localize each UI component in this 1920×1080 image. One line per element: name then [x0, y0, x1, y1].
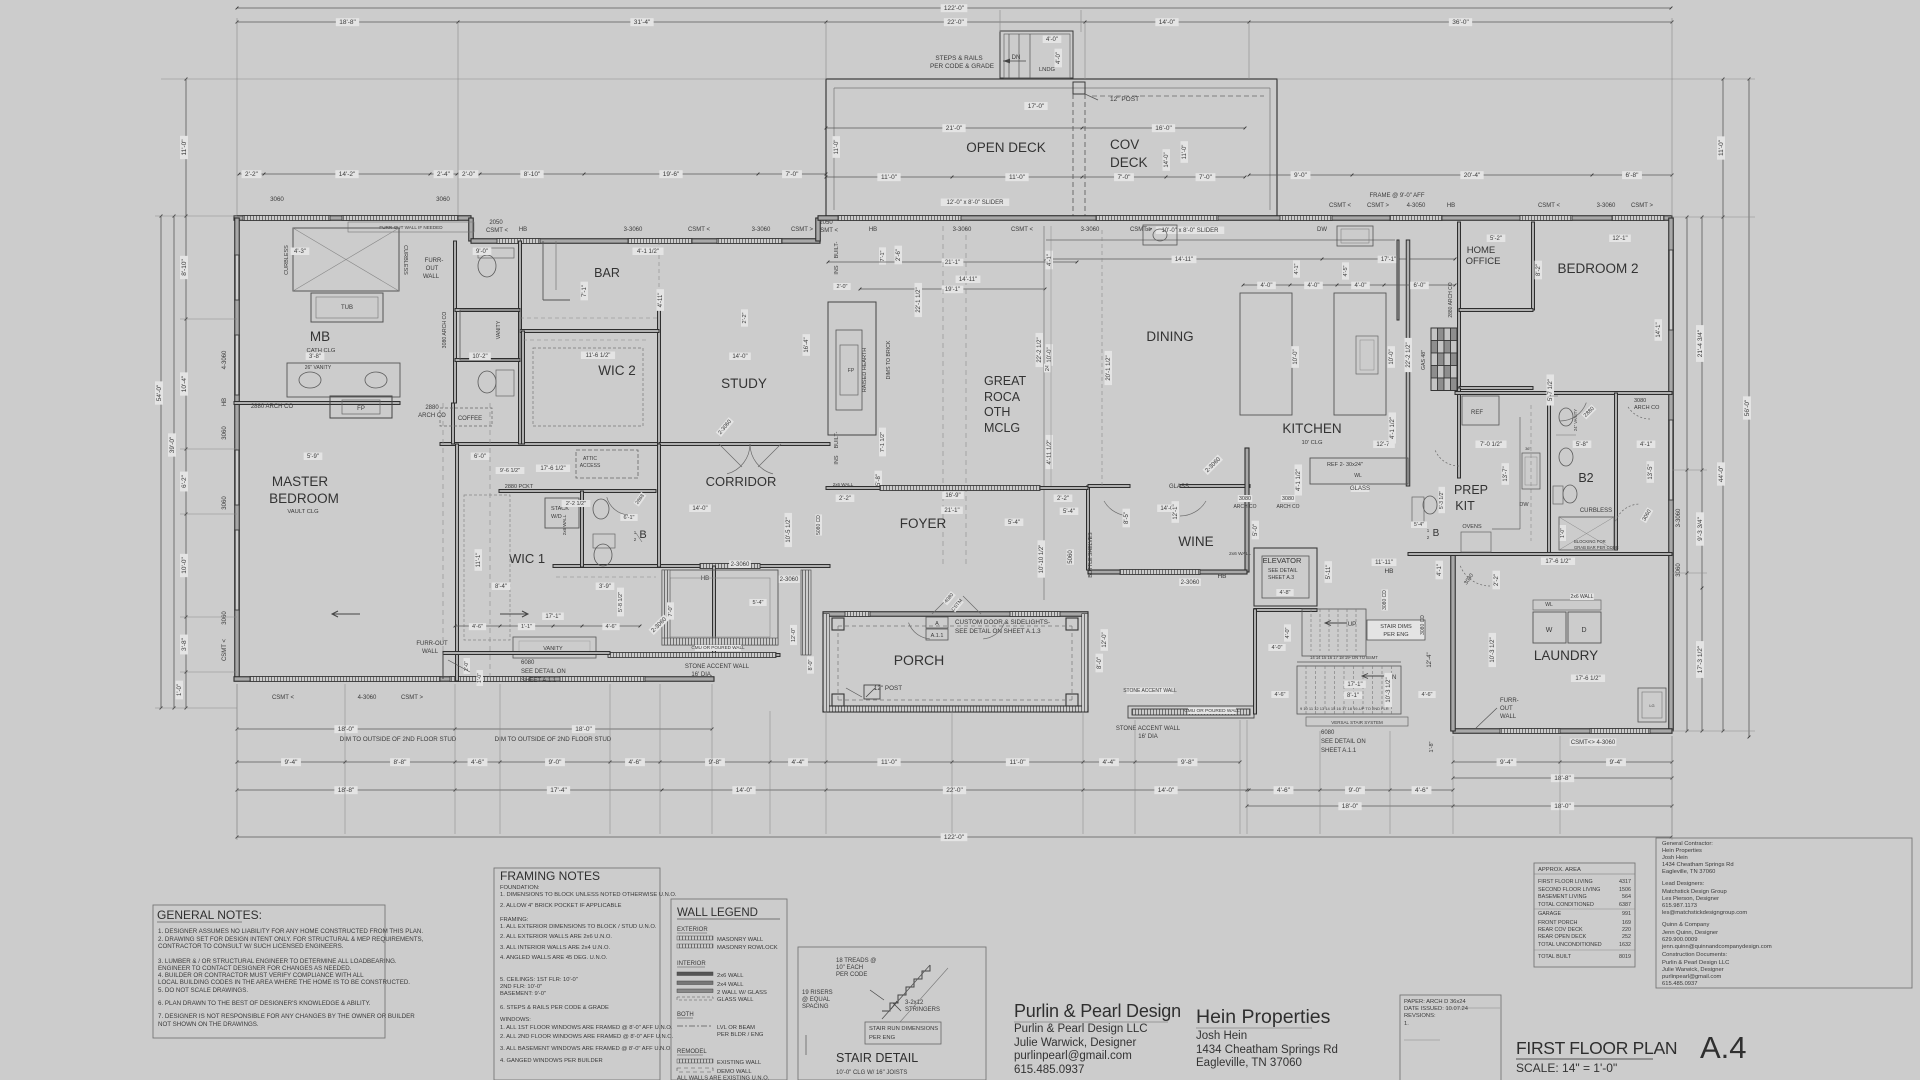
svg-text:4'-8": 4'-8" [1280, 590, 1291, 596]
svg-text:1. DESIGNER ASSUMES NO LIABILI: 1. DESIGNER ASSUMES NO LIABILITY FOR ANY… [158, 928, 423, 935]
svg-text:31'-4": 31'-4" [634, 19, 651, 26]
svg-text:4. ANGLED WALLS ARE 45 DEG. U.: 4. ANGLED WALLS ARE 45 DEG. U.N.O. [500, 955, 608, 961]
svg-text:DN: DN [1012, 55, 1021, 61]
svg-text:DINING: DINING [1146, 329, 1193, 344]
svg-text:2'-2": 2'-2" [742, 312, 748, 323]
svg-text:MCLG: MCLG [984, 421, 1020, 435]
svg-text:1'-0": 1'-0" [477, 673, 483, 683]
svg-text:3080 CD: 3080 CD [1420, 615, 1426, 635]
svg-text:5'-3 1/2": 5'-3 1/2" [1439, 491, 1445, 510]
svg-text:122'-0": 122'-0" [944, 834, 965, 841]
svg-text:4'-1 1/2": 4'-1 1/2" [1390, 417, 1396, 439]
svg-text:ARCH CO: ARCH CO [1233, 504, 1256, 510]
svg-text:1. ALL 1ST FLOOR WINDOWS ARE F: 1. ALL 1ST FLOOR WINDOWS ARE FRAMED @ 8'… [500, 1025, 673, 1031]
svg-text:10'-0" CLG W/ 16" JOISTS: 10'-0" CLG W/ 16" JOISTS [836, 1070, 907, 1076]
svg-text:4. GANGED WINDOWS PER BUILDER: 4. GANGED WINDOWS PER BUILDER [500, 1058, 603, 1064]
svg-text:HB: HB [222, 398, 228, 406]
svg-text:5'-4": 5'-4" [1008, 520, 1020, 526]
svg-text:BASEMENT: 9'-0": BASEMENT: 9'-0" [500, 991, 546, 997]
svg-text:4'-1": 4'-1" [1640, 442, 1652, 448]
svg-text:SEE DETAIL ON: SEE DETAIL ON [1321, 739, 1366, 745]
svg-text:CMU OR POURED WALL: CMU OR POURED WALL [1184, 708, 1240, 714]
svg-text:9'-0": 9'-0" [1294, 172, 1308, 179]
svg-text:VAULT CLG: VAULT CLG [287, 509, 319, 515]
svg-text:FURR-: FURR- [1500, 698, 1519, 704]
svg-text:36": 36" [1146, 227, 1153, 232]
svg-text:10'-10 1/2": 10'-10 1/2" [1039, 545, 1045, 574]
svg-text:5'-8": 5'-8" [1576, 442, 1588, 448]
svg-text:PAPER: ARCH D 36x24: PAPER: ARCH D 36x24 [1404, 999, 1467, 1005]
svg-text:1'-8": 1'-8" [1429, 741, 1435, 752]
svg-text:B2: B2 [1578, 471, 1593, 485]
svg-text:10'-4": 10'-4" [181, 375, 188, 392]
svg-text:5'-4": 5'-4" [1063, 509, 1075, 515]
svg-text:OPEN DECK: OPEN DECK [966, 140, 1046, 155]
svg-text:4. BUILDER OR CONTRACTOR MUST: 4. BUILDER OR CONTRACTOR MUST VERIFY COM… [158, 972, 364, 979]
svg-text:REMODEL: REMODEL [677, 1049, 707, 1055]
svg-text:W: W [1546, 627, 1553, 634]
svg-text:REAR COV DECK: REAR COV DECK [1538, 927, 1583, 933]
svg-text:3-3060: 3-3060 [1676, 508, 1682, 527]
svg-text:A.4: A.4 [1700, 1030, 1747, 1065]
svg-text:PER ENG: PER ENG [869, 1035, 896, 1041]
svg-text:HB: HB [869, 227, 877, 233]
svg-text:2. ALLOW 4" BRICK POCKET IF AP: 2. ALLOW 4" BRICK POCKET IF APPLICABLE [500, 903, 622, 909]
svg-text:SPACING: SPACING [802, 1004, 829, 1010]
svg-text:11'-6 1/2": 11'-6 1/2" [586, 353, 611, 359]
svg-text:SEE DETAIL: SEE DETAIL [1268, 568, 1298, 574]
svg-text:WL: WL [1545, 602, 1553, 608]
svg-text:ROCA: ROCA [984, 390, 1021, 404]
svg-text:6080: 6080 [1321, 730, 1335, 736]
svg-text:8'-10": 8'-10" [181, 259, 188, 276]
svg-text:Les Pierson, Designer: Les Pierson, Designer [1662, 896, 1719, 902]
svg-text:BOTTLE SHELVES: BOTTLE SHELVES [1088, 532, 1094, 578]
svg-text:WINE: WINE [1178, 534, 1213, 549]
svg-text:3-2x12: 3-2x12 [905, 1000, 924, 1006]
svg-text:4'-0": 4'-0" [1308, 283, 1320, 289]
svg-text:GENERAL NOTES:: GENERAL NOTES: [157, 908, 262, 922]
svg-text:9'-0": 9'-0" [1349, 787, 1363, 794]
svg-text:BUILT-: BUILT- [834, 241, 840, 258]
svg-text:3-3060: 3-3060 [752, 227, 771, 233]
svg-text:5060: 5060 [1068, 550, 1074, 564]
svg-text:SEE DETAIL ON SHEET A.1.3: SEE DETAIL ON SHEET A.1.3 [955, 628, 1041, 635]
svg-text:Matchstick Design Group: Matchstick Design Group [1662, 889, 1727, 895]
svg-text:7'-1": 7'-1" [880, 250, 886, 261]
svg-text:3. LUMBER & / OR STRUCTURAL EN: 3. LUMBER & / OR STRUCTURAL ENGINEER TO … [158, 958, 397, 965]
svg-text:Hein Properties: Hein Properties [1196, 1006, 1331, 1028]
svg-text:DEMO WALL: DEMO WALL [717, 1069, 752, 1075]
svg-text:HB: HB [1217, 573, 1226, 580]
svg-text:1. ALL EXTERIOR DIMENSIONS TO: 1. ALL EXTERIOR DIMENSIONS TO BLOCK / ST… [500, 924, 657, 930]
svg-text:3. ALL INTERIOR WALLS ARE 2x4: 3. ALL INTERIOR WALLS ARE 2x4 U.N.O. [500, 945, 610, 951]
svg-text:HB: HB [1384, 568, 1393, 575]
svg-text:INTERIOR: INTERIOR [677, 961, 706, 967]
svg-text:12'-0" x 8'-0" SLIDER: 12'-0" x 8'-0" SLIDER [947, 200, 1005, 206]
svg-text:9'-6 1/2": 9'-6 1/2" [500, 468, 520, 474]
svg-text:9'-4": 9'-4" [1610, 759, 1624, 766]
svg-text:10'-0": 10'-0" [1047, 347, 1053, 362]
svg-text:4'-6": 4'-6" [1277, 787, 1291, 794]
svg-text:16'-9": 16'-9" [945, 493, 960, 499]
svg-text:OUT: OUT [1500, 706, 1513, 712]
svg-text:Purlin & Pearl Design: Purlin & Pearl Design [1014, 1001, 1181, 1021]
svg-text:18'-8": 18'-8" [1554, 775, 1571, 782]
svg-text:2-3060: 2-3060 [780, 577, 799, 583]
svg-text:4-3060: 4-3060 [222, 350, 228, 369]
svg-text:6. STEPS & RAILS PER CODE & GR: 6. STEPS & RAILS PER CODE & GRADE [500, 1005, 609, 1011]
svg-text:17'-0": 17'-0" [1028, 103, 1045, 110]
svg-text:CSMT <: CSMT < [1011, 227, 1034, 233]
svg-text:Lead Designers:: Lead Designers: [1662, 881, 1705, 887]
svg-text:FRAMING NOTES: FRAMING NOTES [500, 869, 600, 883]
svg-text:4'-5": 4'-5" [1343, 265, 1349, 276]
svg-text:BEDROOM 2: BEDROOM 2 [1557, 261, 1638, 276]
svg-text:WALL: WALL [1500, 714, 1517, 720]
svg-text:LOCAL BUILDING CODES IN THE AR: LOCAL BUILDING CODES IN THE AREA WHERE T… [158, 979, 410, 986]
svg-text:Construction Documents:: Construction Documents: [1662, 952, 1727, 958]
svg-text:3060: 3060 [1676, 563, 1682, 577]
svg-text:OVENS: OVENS [1462, 524, 1482, 530]
svg-text:22'-2 1/2": 22'-2 1/2" [1037, 337, 1043, 362]
svg-text:General Contractor:: General Contractor: [1662, 841, 1713, 847]
svg-text:252: 252 [1622, 934, 1631, 940]
svg-text:8'-5": 8'-5" [1124, 512, 1130, 524]
svg-text:ARCH CO: ARCH CO [418, 413, 446, 419]
svg-text:SEE DETAIL ON: SEE DETAIL ON [521, 669, 566, 675]
svg-text:2ND FLR: 10'-0": 2ND FLR: 10'-0" [500, 984, 542, 990]
svg-text:9'-8": 9'-8" [709, 759, 723, 766]
svg-text:7'-0": 7'-0" [1199, 174, 1213, 181]
svg-text:17'-3 1/2": 17'-3 1/2" [1697, 645, 1704, 673]
svg-text:16' DIA: 16' DIA [1138, 734, 1158, 740]
svg-text:3060: 3060 [222, 426, 228, 440]
svg-text:2'-2": 2'-2" [245, 171, 259, 178]
svg-text:56'-0": 56'-0" [1744, 399, 1751, 416]
svg-text:KITCHEN: KITCHEN [1282, 421, 1341, 436]
svg-text:jenn.quinn@quinnandcompanydesi: jenn.quinn@quinnandcompanydesign.com [1661, 944, 1772, 950]
svg-text:2880: 2880 [425, 405, 439, 411]
svg-text:PORCH: PORCH [894, 652, 945, 668]
svg-text:22'-2 1/2": 22'-2 1/2" [1406, 342, 1412, 367]
svg-text:615.987.1173: 615.987.1173 [1662, 903, 1697, 909]
svg-text:3-3060: 3-3060 [953, 227, 972, 233]
svg-text:2'-2": 2'-2" [1494, 574, 1500, 586]
svg-text:BASEMENT LIVING: BASEMENT LIVING [1538, 894, 1587, 900]
svg-text:HB: HB [701, 576, 709, 582]
svg-text:GREAT: GREAT [984, 374, 1026, 388]
svg-text:39'-0": 39'-0" [169, 436, 176, 453]
svg-text:16'-0": 16'-0" [1155, 125, 1172, 132]
svg-text:4'-6": 4'-6" [472, 624, 483, 630]
svg-text:STAIR RUN DIMENSIONS: STAIR RUN DIMENSIONS [869, 1026, 938, 1032]
svg-text:3. ALL BASEMENT WINDOWS ARE FR: 3. ALL BASEMENT WINDOWS ARE FRAMED @ 8'-… [500, 1046, 672, 1052]
svg-text:2'-2": 2'-2" [1057, 496, 1069, 502]
svg-text:CSMT >: CSMT > [1367, 203, 1390, 209]
svg-text:36'-0": 36'-0" [1452, 19, 1469, 26]
svg-text:LAUNDRY: LAUNDRY [1534, 648, 1598, 663]
svg-text:purlinpearl@gmail.com: purlinpearl@gmail.com [1662, 974, 1722, 980]
svg-text:4'-0": 4'-0" [1355, 283, 1367, 289]
svg-text:ALL WALLS ARE EXISTING U.N.O.: ALL WALLS ARE EXISTING U.N.O. [677, 1076, 770, 1080]
svg-text:OFFICE: OFFICE [1466, 256, 1501, 267]
svg-text:1'-0": 1'-0" [177, 684, 183, 696]
svg-text:1'-1": 1'-1" [521, 624, 532, 630]
svg-text:2x6 WALL: 2x6 WALL [1229, 551, 1251, 557]
svg-text:8019: 8019 [1619, 954, 1631, 960]
svg-text:12'-1": 12'-1" [1612, 236, 1627, 242]
svg-text:991: 991 [1622, 911, 1631, 917]
svg-text:629.900.0009: 629.900.0009 [1662, 937, 1697, 943]
svg-text:WIC 1: WIC 1 [509, 551, 545, 566]
svg-text:EXTERIOR: EXTERIOR [677, 927, 708, 933]
svg-text:7. DESIGNER IS NOT RESPONSIBLE: 7. DESIGNER IS NOT RESPONSIBLE FOR ANY C… [158, 1013, 415, 1020]
svg-text:9'-0": 9'-0" [549, 759, 563, 766]
svg-text:17'-1": 17'-1" [545, 614, 560, 620]
svg-text:26" VANITY: 26" VANITY [305, 365, 332, 371]
svg-text:1632: 1632 [1619, 942, 1631, 948]
svg-text:11'-0": 11'-0" [1009, 174, 1026, 181]
svg-text:A.1.1: A.1.1 [931, 633, 944, 639]
svg-text:W/D: W/D [551, 514, 562, 520]
svg-text:3080 ARCH CO: 3080 ARCH CO [442, 312, 448, 349]
svg-text:CSMT <: CSMT < [272, 695, 295, 701]
svg-text:17'-6 1/2": 17'-6 1/2" [540, 466, 565, 472]
svg-text:NOT SHOWN ON THE DRAWINGS.: NOT SHOWN ON THE DRAWINGS. [158, 1021, 259, 1028]
svg-text:8'-8": 8'-8" [394, 759, 408, 766]
svg-text:Julie Warwick, Designer: Julie Warwick, Designer [1662, 967, 1724, 973]
svg-text:10'-3 1/2": 10'-3 1/2" [1490, 637, 1496, 662]
svg-text:19 RISERS: 19 RISERS [802, 990, 833, 996]
svg-text:9'-8": 9'-8" [1181, 759, 1195, 766]
svg-text:21'-4 3/4": 21'-4 3/4" [1697, 329, 1704, 357]
svg-text:WL: WL [1354, 473, 1362, 479]
svg-text:12" POST: 12" POST [1110, 96, 1139, 103]
svg-text:FIRST FLOOR PLAN: FIRST FLOOR PLAN [1516, 1038, 1677, 1058]
svg-text:DW: DW [1519, 502, 1529, 508]
svg-text:COV: COV [1110, 137, 1139, 152]
svg-text:3080: 3080 [1282, 496, 1294, 502]
svg-text:STEPS & RAILS: STEPS & RAILS [935, 55, 982, 62]
svg-text:10'-0" x 8'-0" SLIDER: 10'-0" x 8'-0" SLIDER [1162, 228, 1220, 234]
svg-text:615.485.0937: 615.485.0937 [1014, 1064, 1084, 1076]
svg-text:2'-4": 2'-4" [437, 171, 451, 178]
svg-text:7'-0 1/2": 7'-0 1/2" [1480, 442, 1502, 448]
svg-text:5080 CD: 5080 CD [816, 515, 822, 535]
svg-text:4'-0": 4'-0" [1285, 627, 1291, 638]
svg-text:7'-0": 7'-0" [668, 605, 674, 616]
svg-text:CURBLESS: CURBLESS [284, 245, 290, 275]
svg-text:3060: 3060 [270, 196, 284, 203]
svg-text:FOYER: FOYER [900, 516, 947, 531]
svg-text:REF: REF [1471, 410, 1483, 416]
svg-text:4'-1": 4'-1" [1437, 564, 1443, 576]
svg-text:CSMT >: CSMT > [1631, 203, 1654, 209]
svg-text:5. DO NOT SCALE DRAWINGS.: 5. DO NOT SCALE DRAWINGS. [158, 987, 248, 994]
svg-text:Julie Warwick, Designer: Julie Warwick, Designer [1014, 1037, 1136, 1049]
svg-text:2050: 2050 [489, 220, 503, 226]
svg-text:9'-4": 9'-4" [1500, 759, 1514, 766]
svg-text:6'-8": 6'-8" [1626, 172, 1640, 179]
svg-text:20'-1 1/2": 20'-1 1/2" [1106, 355, 1112, 380]
svg-text:12'-0": 12'-0" [791, 628, 797, 642]
svg-text:20'-4": 20'-4" [1464, 172, 1481, 179]
svg-text:17'-6 1/2": 17'-6 1/2" [1545, 559, 1570, 565]
svg-text:14'-0": 14'-0" [1164, 152, 1170, 167]
svg-text:1. DIMENSIONS TO BLOCK UNLESS: 1. DIMENSIONS TO BLOCK UNLESS NOTED OTHE… [500, 892, 677, 898]
svg-text:18'-0": 18'-0" [1554, 803, 1571, 810]
svg-text:4'-1": 4'-1" [1294, 263, 1300, 274]
svg-text:SHEET A.1.1: SHEET A.1.1 [521, 678, 557, 684]
svg-text:11'-0": 11'-0" [881, 759, 898, 766]
svg-text:3-3060: 3-3060 [624, 227, 643, 233]
svg-text:6'-1": 6'-1" [624, 515, 635, 521]
svg-text:CSMT >: CSMT > [791, 227, 814, 233]
svg-text:9'-4": 9'-4" [285, 759, 299, 766]
svg-text:A: A [935, 621, 939, 627]
svg-text:615.485.0937: 615.485.0937 [1662, 981, 1697, 987]
svg-text:STONE ACCENT WALL: STONE ACCENT WALL [1116, 726, 1181, 732]
svg-text:17'-1": 17'-1" [1347, 682, 1362, 688]
svg-text:STAIR DIMS: STAIR DIMS [1380, 624, 1412, 630]
svg-text:GRAB BAR PER CODE: GRAB BAR PER CODE [1574, 545, 1619, 550]
svg-text:4'-11": 4'-11" [658, 293, 664, 308]
svg-text:14'-0": 14'-0" [1158, 787, 1175, 794]
svg-text:21'-0": 21'-0" [946, 125, 963, 132]
svg-text:12'-0": 12'-0" [1102, 632, 1108, 647]
svg-text:B: B [1433, 528, 1440, 539]
svg-text:22'-0": 22'-0" [946, 787, 963, 794]
svg-text:STUDY: STUDY [721, 376, 767, 391]
svg-text:3080: 3080 [1239, 496, 1251, 502]
svg-text:5'-4": 5'-4" [1414, 522, 1424, 528]
svg-text:4'-11 1/2": 4'-11 1/2" [1047, 440, 1053, 465]
svg-text:REF 2- 30x24": REF 2- 30x24" [1327, 462, 1363, 468]
svg-text:122'-0": 122'-0" [944, 5, 965, 12]
svg-text:MASTER: MASTER [272, 474, 329, 489]
svg-text:Quinn & Company: Quinn & Company [1662, 922, 1709, 928]
svg-text:WALL: WALL [423, 274, 440, 280]
svg-text:6'-2": 6'-2" [181, 474, 188, 488]
svg-text:SCALE: 14" = 1'-0": SCALE: 14" = 1'-0" [1516, 1061, 1617, 1075]
svg-text:14'-11": 14'-11" [959, 277, 977, 283]
svg-text:5'-2": 5'-2" [1490, 236, 1502, 242]
svg-text:7'-0": 7'-0" [1118, 174, 1132, 181]
svg-text:8'-2": 8'-2" [1536, 264, 1542, 276]
svg-text:BUILT-: BUILT- [834, 431, 840, 448]
svg-text:GLASS WALL: GLASS WALL [717, 997, 754, 1003]
svg-text:2880 ARCH CO: 2880 ARCH CO [1448, 282, 1454, 317]
svg-text:11'-1": 11'-1" [476, 553, 482, 568]
svg-text:4'-0": 4'-0" [1261, 283, 1273, 289]
svg-text:CSMT <: CSMT < [688, 227, 711, 233]
svg-text:12'-1": 12'-1" [1173, 504, 1179, 519]
svg-text:3'-9": 3'-9" [599, 584, 611, 590]
svg-text:Purlin & Pearl Design LLC: Purlin & Pearl Design LLC [1014, 1023, 1148, 1035]
svg-text:12" POST: 12" POST [874, 685, 902, 692]
svg-text:7'-1": 7'-1" [582, 285, 588, 297]
svg-text:HB: HB [519, 227, 527, 233]
svg-text:Josh Hein: Josh Hein [1662, 855, 1688, 861]
svg-text:CSMT <: CSMT < [486, 228, 509, 234]
svg-text:ATTIC: ATTIC [583, 456, 597, 462]
svg-text:WIC 2: WIC 2 [598, 363, 636, 378]
svg-text:GLASS: GLASS [1169, 484, 1189, 490]
svg-text:CURBLESS: CURBLESS [402, 245, 408, 275]
svg-text:19'-1": 19'-1" [945, 287, 960, 293]
svg-text:TOTAL BUILT: TOTAL BUILT [1538, 954, 1572, 960]
svg-text:4'-6": 4'-6" [629, 759, 643, 766]
svg-text:9'-0": 9'-0" [476, 249, 488, 255]
svg-text:4'-4": 4'-4" [1103, 759, 1117, 766]
svg-text:16'-4": 16'-4" [804, 337, 810, 352]
svg-text:2. DRAWING SET FOR DESIGN INTE: 2. DRAWING SET FOR DESIGN INTENT ONLY. F… [158, 936, 424, 943]
svg-text:2'-2": 2'-2" [839, 496, 851, 502]
svg-text:5. CEILINGS: 1ST FLR: 1: 5. CEILINGS: 1ST FLR: 10'-0" [500, 977, 578, 983]
svg-text:PER BLDR / ENG: PER BLDR / ENG [717, 1032, 764, 1038]
svg-text:14'-0": 14'-0" [1159, 19, 1176, 26]
svg-text:CMU OR POURED WALL: CMU OR POURED WALL [691, 645, 745, 650]
svg-text:169: 169 [1622, 920, 1631, 926]
svg-text:1434 Cheatham Springs Rd: 1434 Cheatham Springs Rd [1196, 1044, 1338, 1056]
svg-text:PER ENG: PER ENG [1383, 632, 1408, 638]
svg-text:14'-2": 14'-2" [339, 171, 356, 178]
svg-text:4'-4": 4'-4" [792, 759, 806, 766]
svg-text:10' CLG: 10' CLG [1301, 440, 1323, 446]
svg-text:CSMT <: CSMT < [1538, 203, 1561, 209]
svg-text:5'-7 1/2": 5'-7 1/2" [1548, 379, 1554, 401]
svg-text:DATE ISSUED: 10.07.24: DATE ISSUED: 10.07.24 [1404, 1006, 1469, 1012]
svg-text:2. ALL 2ND FLOOR WINDOWS ARE F: 2. ALL 2ND FLOOR WINDOWS ARE FRAMED @ 8'… [500, 1034, 674, 1040]
svg-text:2880 ARCH CO: 2880 ARCH CO [251, 404, 294, 410]
svg-text:2-3060: 2-3060 [1181, 580, 1200, 586]
svg-text:RAISED HEARTH: RAISED HEARTH [862, 348, 868, 393]
svg-text:18'-8": 18'-8" [339, 19, 356, 26]
svg-text:BEDROOM: BEDROOM [269, 491, 339, 506]
svg-text:564: 564 [1622, 894, 1631, 900]
svg-text:2'-2 1/2": 2'-2 1/2" [566, 501, 586, 507]
svg-text:11'-0": 11'-0" [1182, 145, 1188, 160]
svg-text:ARCH CO: ARCH CO [1634, 405, 1660, 411]
svg-text:STRINGERS: STRINGERS [905, 1007, 940, 1013]
svg-text:3'-8": 3'-8" [181, 637, 188, 651]
svg-text:REAR OPEN DECK: REAR OPEN DECK [1538, 934, 1587, 940]
svg-text:LNDG: LNDG [1039, 67, 1056, 73]
svg-text:ARCH CO: ARCH CO [1276, 504, 1299, 510]
svg-text:10'-0": 10'-0" [1389, 349, 1395, 364]
svg-text:APPROX. AREA: APPROX. AREA [1538, 867, 1581, 873]
svg-text:MASONRY WALL: MASONRY WALL [717, 937, 764, 943]
svg-text:1506: 1506 [1619, 887, 1631, 893]
svg-text:WALL LEGEND: WALL LEGEND [677, 907, 758, 919]
svg-text:2x6 WALL: 2x6 WALL [562, 514, 567, 535]
svg-text:FURR-: FURR- [425, 258, 444, 264]
svg-text:2 WALL W/ GLASS: 2 WALL W/ GLASS [717, 990, 767, 996]
svg-text:FOUNDATION:: FOUNDATION: [500, 885, 540, 891]
svg-text:INS: INS [834, 455, 840, 465]
svg-text:LVL OR BEAM: LVL OR BEAM [717, 1025, 755, 1031]
svg-text:4'-0": 4'-0" [1056, 52, 1062, 64]
svg-text:14'-0": 14'-0" [692, 506, 707, 512]
svg-text:8'-0": 8'-0" [808, 659, 814, 670]
svg-text:4'-1 1/2": 4'-1 1/2" [1296, 469, 1302, 491]
svg-text:FRAMING:: FRAMING: [500, 917, 529, 923]
svg-text:OUT: OUT [426, 266, 439, 272]
svg-text:4-3060: 4-3060 [358, 695, 377, 701]
svg-text:54'-0": 54'-0" [156, 384, 163, 401]
svg-text:5'-4": 5'-4" [753, 600, 764, 606]
